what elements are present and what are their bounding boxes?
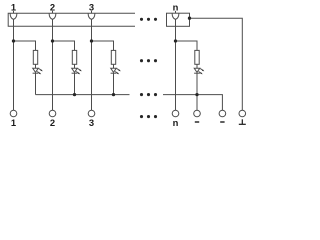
wire branch channel n to resistor <box>176 41 198 50</box>
svg-text:n: n <box>173 1 179 12</box>
pin tick 2 <box>52 11 54 13</box>
junction node channel n <box>174 39 177 42</box>
terminal 2 <box>49 110 56 117</box>
junction node LED3 bus <box>112 93 115 96</box>
svg-text:1: 1 <box>11 1 16 12</box>
LED Dn <box>194 68 204 74</box>
continuation dots LED row <box>140 59 157 62</box>
terminal minus 2 <box>219 110 226 117</box>
socket contact 2 <box>49 13 56 19</box>
svg-text:n: n <box>173 117 179 128</box>
wire channel 1 vertical <box>13 19 15 110</box>
LED D2 <box>72 68 82 74</box>
ground symbol <box>239 119 246 124</box>
socket contact n <box>172 13 179 19</box>
pin tick 3 <box>91 11 93 13</box>
wire branch channel 2 to resistor <box>53 41 75 50</box>
terminal n <box>172 110 179 117</box>
wire branch channel 3 to resistor <box>92 41 114 50</box>
wire Rn to LEDn <box>196 64 198 68</box>
socket contact 1 <box>10 13 17 19</box>
junction node LEDn bus <box>195 93 198 96</box>
svg-text:2: 2 <box>50 1 55 12</box>
resistor Rn <box>195 50 199 64</box>
terminal label minus 2 <box>220 121 224 123</box>
resistor R1 <box>33 50 37 64</box>
wire channel 3 vertical <box>91 19 93 110</box>
svg-text:1: 1 <box>11 117 16 128</box>
resistor R2 <box>72 50 76 64</box>
ground terminal <box>239 110 246 117</box>
terminal label minus 1 <box>195 121 199 123</box>
pin tick 1 <box>13 11 15 13</box>
pin tick n <box>175 11 177 13</box>
main connector strip box <box>8 13 135 26</box>
LED D3 <box>111 68 121 74</box>
n-channel connector box <box>167 13 190 26</box>
wire LED3 down to minus bus <box>113 74 115 95</box>
junction node channel 3 <box>90 39 93 42</box>
junction node channel 2 <box>51 39 54 42</box>
wire channel n vertical <box>175 19 177 110</box>
terminal 1 <box>10 110 17 117</box>
continuation dots bus row <box>140 93 157 96</box>
socket contact 3 <box>88 13 95 19</box>
terminal 3 <box>88 110 95 117</box>
continuation dots terminal row <box>140 115 157 118</box>
terminal minus 1 <box>194 110 201 117</box>
wire R3 to LED3 <box>113 64 115 68</box>
svg-text:3: 3 <box>89 1 94 12</box>
minus bus left segment <box>36 94 130 96</box>
resistor R3 <box>111 50 115 64</box>
junction node channel 1 <box>12 39 15 42</box>
continuation dots top row <box>140 18 157 21</box>
junction node LED2 bus <box>73 93 76 96</box>
wire R1 to LED1 <box>35 64 37 68</box>
svg-text:3: 3 <box>89 117 94 128</box>
wire channel 2 vertical <box>52 19 54 110</box>
wire R2 to LED2 <box>74 64 76 68</box>
wire LED1 down to minus bus <box>35 74 37 95</box>
LED D1 <box>33 68 43 74</box>
wire shield from n-box to ground terminal <box>190 18 243 110</box>
wire LED2 down to minus bus <box>74 74 76 95</box>
wire branch channel 1 to resistor <box>14 41 36 50</box>
minus bus right segment <box>163 95 222 111</box>
svg-text:2: 2 <box>50 117 55 128</box>
wire LEDn down to minus terminal <box>196 74 198 111</box>
junction node shield at n-box <box>188 17 191 20</box>
